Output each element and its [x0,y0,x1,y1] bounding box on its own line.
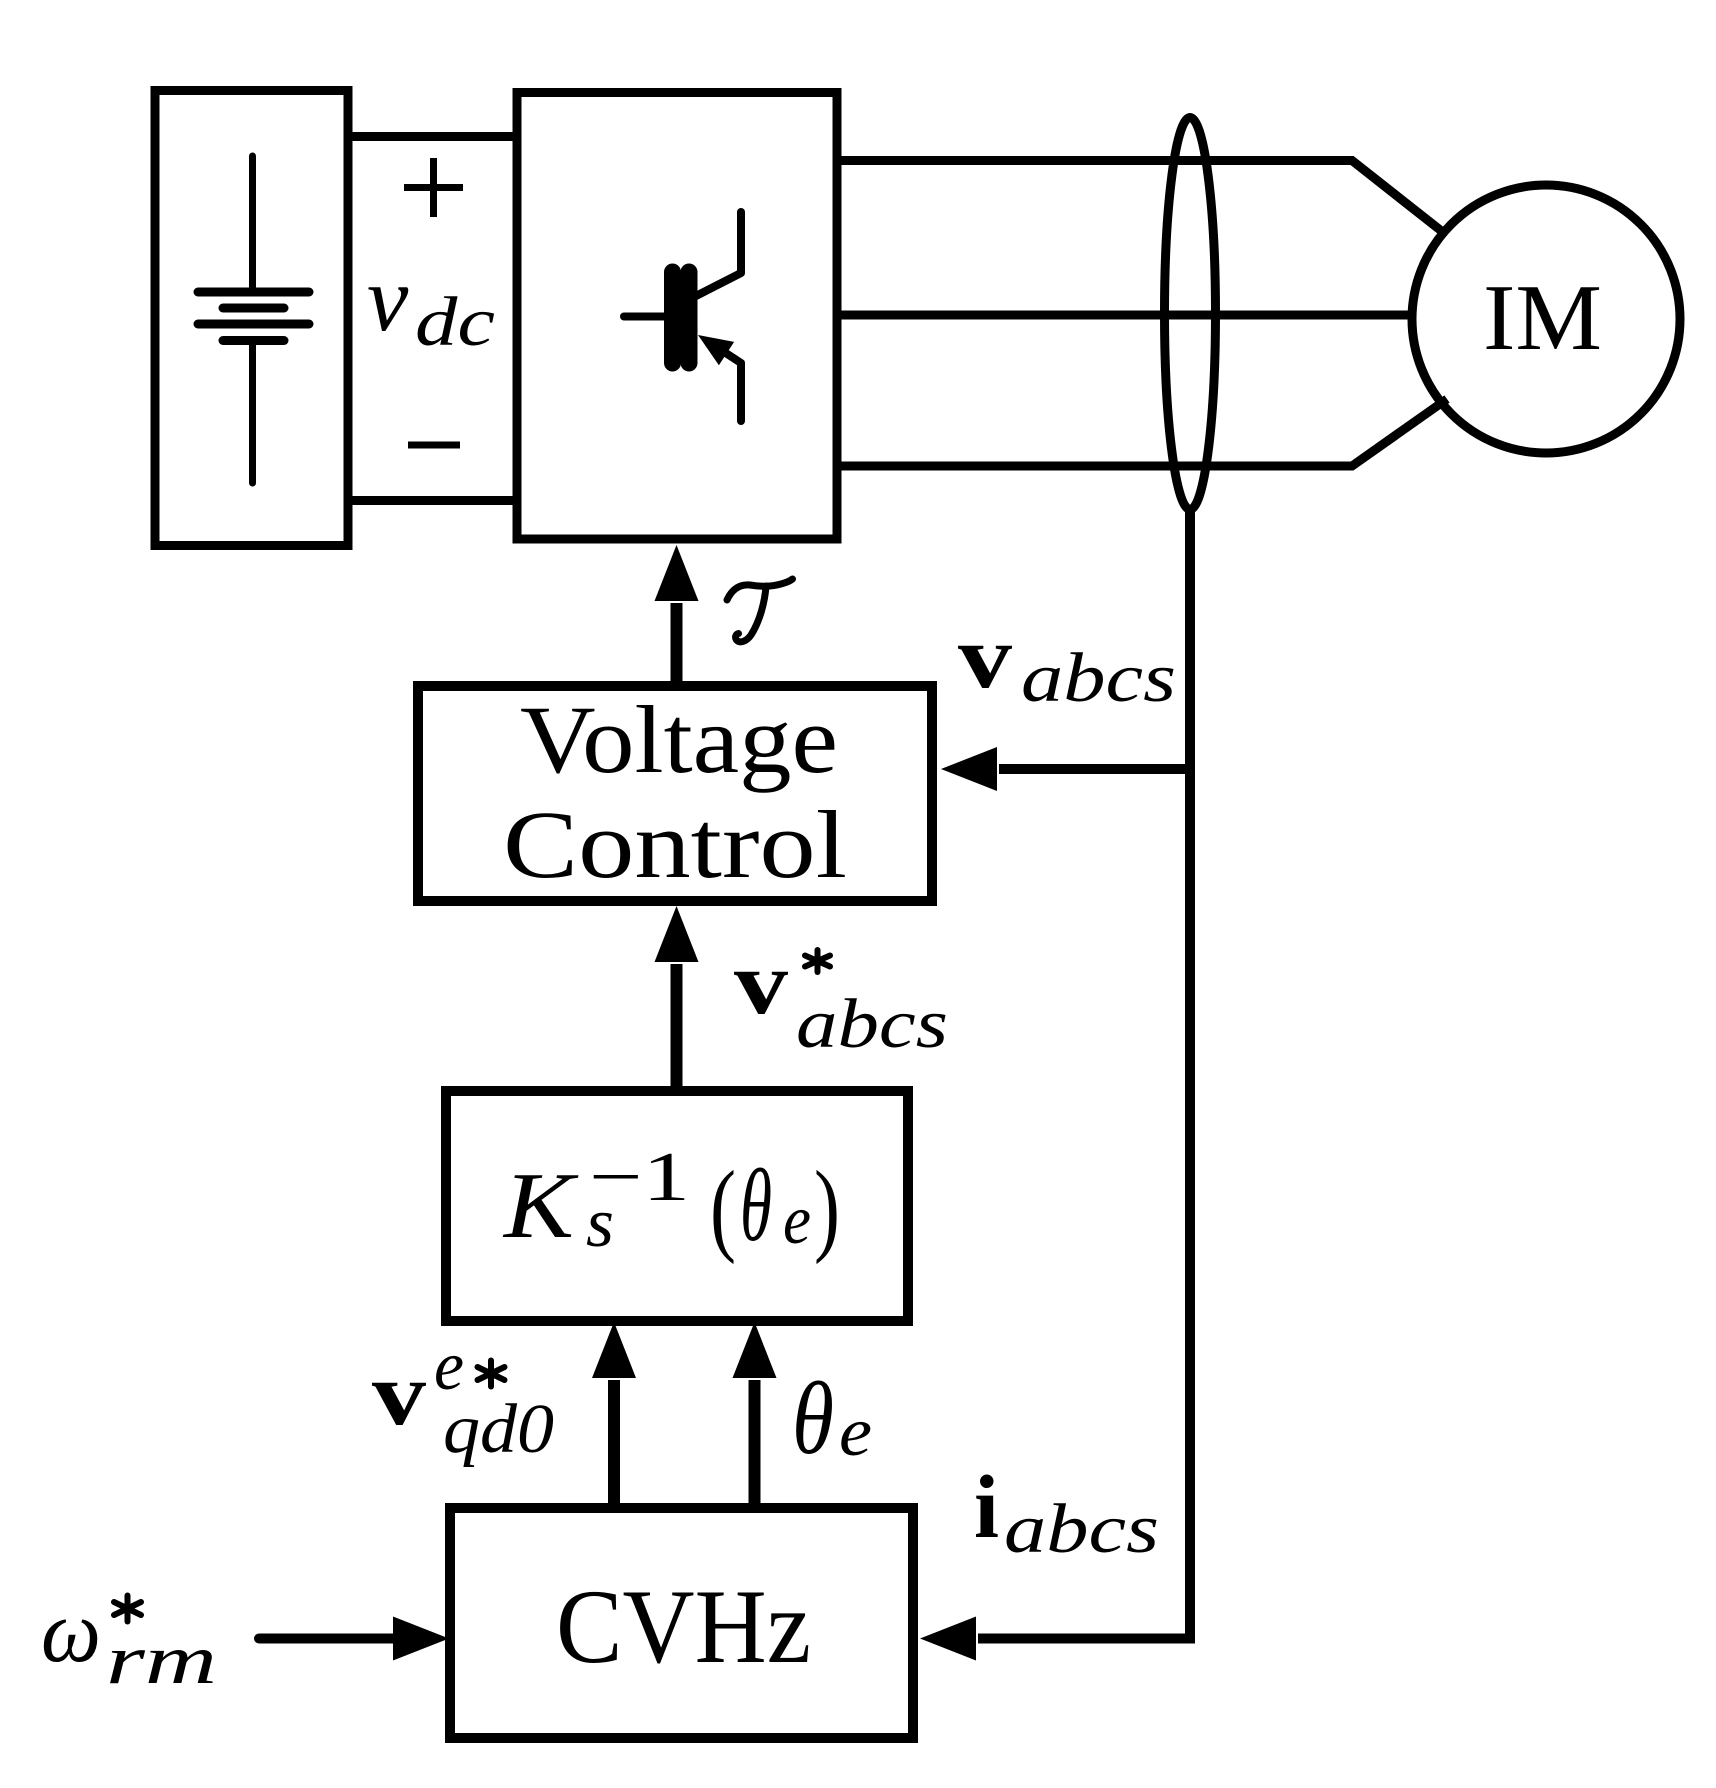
arrow iabcs [920,1617,976,1661]
label vqd0e* [372,1328,554,1468]
label vabcs [958,608,1176,717]
wire dc plus [348,132,517,141]
induction machine IM [1412,185,1680,453]
svg-text:v: v [958,608,1012,707]
svg-text:i: i [974,1458,999,1557]
svg-text:v: v [367,248,409,351]
battery B1 [198,156,309,483]
sensor ellipse [1165,118,1216,510]
voltage control box U1 [418,686,932,901]
arrow theta_e [733,1322,777,1509]
wire phase c [837,399,1447,466]
label theta_e [792,1361,872,1476]
wire dc minus [348,496,517,505]
svg-text:abcs: abcs [796,986,948,1063]
svg-text:e: e [783,1182,811,1259]
label v*abcs [734,934,948,1063]
arrow vabcs [941,747,1190,791]
svg-text:qd0: qd0 [443,1391,554,1468]
svg-text:v: v [372,1345,426,1444]
svg-text:CVHz: CVHz [556,1568,811,1685]
arrow v*abcs [655,906,699,1092]
svg-text:v: v [734,934,788,1033]
svg-text:θ: θ [792,1361,834,1476]
label v* asterisk [805,950,830,972]
label e* asterisk [478,1361,505,1387]
svg-text:abcs: abcs [1021,640,1176,717]
wire phase b [837,311,1413,320]
label T script [727,579,793,642]
label Voltage Control [503,686,847,898]
CVHz box [450,1508,913,1738]
svg-text:): ) [814,1150,840,1265]
svg-text:IM: IM [1483,266,1602,370]
arrow T [655,545,699,686]
transistor Q1 [624,212,741,421]
battery box [155,91,348,546]
svg-text:−1: −1 [589,1139,690,1216]
arrow vqd0 [592,1322,636,1509]
svg-text:ω: ω [41,1583,101,1681]
label plus [404,158,463,217]
label omega*rm [41,1583,217,1699]
svg-text:rm: rm [106,1622,217,1699]
svg-text:e: e [839,1394,872,1471]
svg-text:(: ( [710,1150,736,1265]
label omega* asterisk [114,1596,141,1622]
inverter box [517,93,837,540]
svg-text:dc: dc [415,284,495,361]
svg-text:θ: θ [740,1148,772,1263]
svg-text:K: K [502,1154,579,1258]
label vdc [367,248,495,361]
svg-text:Voltage: Voltage [520,686,838,793]
label Ks^-1(theta_e) [502,1139,840,1265]
wire feedback vertical [978,509,1190,1639]
svg-text:Control: Control [503,791,847,898]
Ks inverse box [446,1091,908,1321]
arrow omega*rm [259,1617,449,1661]
label minus [408,442,460,449]
wire phase a [837,161,1444,234]
svg-text:abcs: abcs [1004,1491,1159,1568]
label iabcs [974,1458,1159,1568]
